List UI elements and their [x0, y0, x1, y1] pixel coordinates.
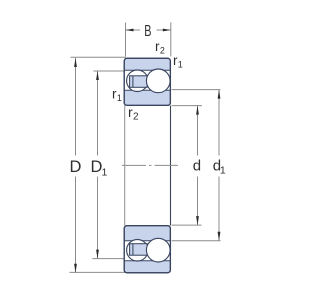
- svg-text:d: d: [193, 158, 201, 175]
- svg-text:D: D: [70, 158, 82, 176]
- svg-text:2: 2: [133, 112, 139, 123]
- svg-text:2: 2: [160, 45, 165, 55]
- svg-text:1: 1: [178, 60, 183, 70]
- svg-text:1: 1: [117, 93, 122, 103]
- svg-text:1: 1: [102, 166, 108, 178]
- svg-text:1: 1: [220, 164, 226, 176]
- svg-text:B: B: [144, 23, 151, 40]
